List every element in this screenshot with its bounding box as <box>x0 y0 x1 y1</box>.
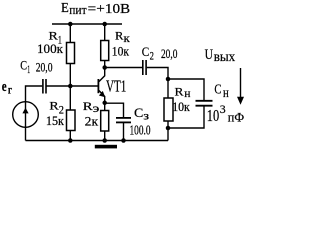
node collector <box>102 65 107 70</box>
resistor R1 <box>67 43 75 64</box>
resistor Rk <box>101 41 109 61</box>
ground <box>95 145 117 149</box>
svg-text:20,0: 20,0 <box>36 61 53 75</box>
svg-text:г: г <box>8 82 13 96</box>
resistor Re <box>101 111 109 132</box>
source eg arrowhead <box>22 108 28 114</box>
svg-text:100к: 100к <box>37 41 64 56</box>
svg-text:=+10В: =+10В <box>88 1 131 16</box>
node rail Re <box>102 138 107 143</box>
svg-text:С: С <box>20 59 27 73</box>
resistor R2 <box>67 110 76 131</box>
svg-text:С: С <box>214 81 221 96</box>
wire Rk bottom / collector node <box>104 61 106 68</box>
node emitter <box>102 101 107 106</box>
wire C2 to output corner <box>147 68 168 99</box>
transistor VT1 collector lead <box>99 68 105 82</box>
transistor VT1 emitter lead <box>99 90 105 110</box>
wire emitter node to C3 <box>105 103 124 117</box>
node top rail R1 <box>68 22 73 27</box>
svg-text:е: е <box>2 79 7 95</box>
svg-text:С: С <box>142 45 150 59</box>
wire R1 top <box>69 24 71 43</box>
svg-text:10к: 10к <box>172 100 190 114</box>
wire R2 bottom <box>69 131 71 141</box>
wire bottom rail <box>26 140 169 142</box>
Uvyh arrowhead <box>237 97 244 105</box>
svg-text:С: С <box>134 106 143 120</box>
Uvyh arrow line <box>240 68 242 98</box>
svg-text:вых: вых <box>214 50 236 65</box>
svg-text:к: к <box>124 31 130 45</box>
node base <box>68 84 73 89</box>
wire source top <box>26 86 43 102</box>
node Cn bottom <box>166 126 171 131</box>
wire Rk top <box>104 24 106 41</box>
svg-text:н: н <box>184 86 191 100</box>
transistor VT1 base bar <box>97 79 99 93</box>
svg-text:R: R <box>49 99 58 113</box>
svg-text:пФ: пФ <box>228 109 244 124</box>
svg-text:R: R <box>175 85 184 99</box>
svg-text:R: R <box>83 99 93 113</box>
svg-text:з: з <box>143 109 149 123</box>
wire Cn bottom <box>168 106 204 128</box>
svg-text:э: э <box>93 101 100 115</box>
wire source bottom <box>25 127 27 140</box>
transistor VT1 emitter arrowhead <box>99 91 105 97</box>
svg-text:2: 2 <box>150 49 154 63</box>
wire Re bottom <box>104 131 106 141</box>
node rail R2 <box>68 138 73 143</box>
wire C3 bottom <box>123 122 125 140</box>
svg-text:15к: 15к <box>46 114 65 128</box>
svg-text:U: U <box>205 47 214 63</box>
capacitor C3 <box>116 117 131 119</box>
node rail C3 <box>121 138 126 143</box>
wire top rail <box>52 23 122 25</box>
capacitor Cn <box>196 100 213 102</box>
svg-text:Е: Е <box>61 1 69 16</box>
wire R2 top <box>69 86 71 110</box>
svg-text:2к: 2к <box>85 115 99 129</box>
capacitor C2 <box>142 60 144 75</box>
svg-text:пит: пит <box>69 2 87 17</box>
svg-text:R: R <box>115 29 123 43</box>
resistor Rn <box>164 98 173 121</box>
svg-text:10к: 10к <box>112 44 130 58</box>
wire R1 bottom <box>69 64 71 87</box>
wire output node to Cn <box>168 79 204 100</box>
svg-text:н: н <box>223 85 229 100</box>
wire collector to C2 <box>105 67 142 69</box>
svg-text:3: 3 <box>220 104 226 116</box>
svg-text:1: 1 <box>27 62 30 76</box>
source eg arrow line <box>25 102 27 128</box>
svg-text:VT1: VT1 <box>106 77 126 96</box>
wire Rn bottom <box>167 121 169 141</box>
capacitor C1 <box>42 79 44 94</box>
svg-text:10: 10 <box>207 106 219 125</box>
node output <box>166 77 171 82</box>
source eg circle <box>13 102 39 128</box>
wire base node to transistor <box>46 85 98 87</box>
node top rail Rk <box>102 22 107 27</box>
svg-text:20,0: 20,0 <box>161 47 177 61</box>
svg-text:100.0: 100.0 <box>130 123 151 138</box>
